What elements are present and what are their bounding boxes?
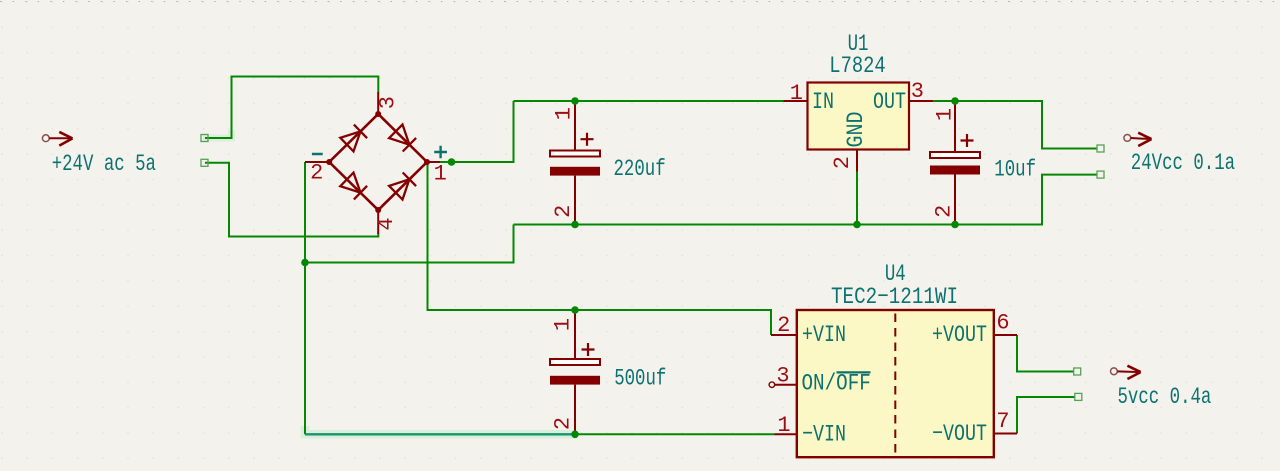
capacitor 10uf value label (994, 157, 1036, 183)
net label 5vcc 0.4a (1118, 385, 1212, 411)
U4 value label TEC2-1211WI (831, 285, 958, 311)
svg-text:4: 4 (374, 217, 399, 230)
bridge pin 3 stub (377, 92, 379, 114)
capacitor 10uf plus sign (961, 134, 974, 147)
svg-text:2: 2 (830, 156, 855, 169)
unconnected wire end square 24V out (1097, 145, 1104, 152)
svg-text:−VIN: −VIN (802, 422, 846, 449)
capacitor 500uf pin number 2 (551, 417, 576, 430)
capacitor 500uf leads (574, 310, 576, 434)
capacitor 10uf pin number 1 (933, 108, 958, 121)
wire AC top: input stub to bridge pin 3 (205, 77, 378, 139)
wire bridge plus down to U4 +VIN (428, 162, 772, 335)
capacitor 500uf bottom plate (550, 376, 600, 385)
capacitor 220uf bottom plate (550, 167, 600, 176)
capacitor 500uf value label (614, 366, 666, 392)
converter U4 body (797, 310, 994, 457)
U4 pin 2 +VIN stub (771, 334, 797, 336)
svg-text:1: 1 (552, 107, 577, 120)
diode top-right (anode pin3 cathode pin1) (389, 125, 416, 152)
capacitor 220uf plus sign (581, 133, 594, 146)
U1 pin 3 OUT stub (909, 100, 933, 102)
U4 pin 3 ON/OFF stub with unconnected circle (769, 382, 797, 388)
svg-text:1: 1 (434, 161, 447, 186)
U4 pin number 1 (777, 413, 790, 438)
U4 pin number 3 (776, 364, 789, 389)
bridge pin number 4 (374, 217, 399, 230)
svg-text:3: 3 (375, 96, 400, 109)
diode bridge outline (329, 114, 427, 210)
svg-text:5vcc 0.4a: 5vcc 0.4a (1118, 385, 1212, 411)
wire U1 GND down to 0V rail (856, 172, 858, 225)
U4 reference label (885, 262, 906, 288)
svg-text:2: 2 (551, 417, 576, 430)
wire 0V rail (514, 175, 1098, 225)
selection highlight halo on AC input stub wire (203, 130, 232, 138)
bridge pin 2 stub (305, 161, 329, 163)
net label 24Vcc 0.1a (1131, 151, 1235, 177)
capacitor 10uf bottom plate (930, 166, 980, 175)
unconnected wire end square 5V out (1074, 368, 1081, 375)
U4 pin name +VOUT (932, 322, 987, 349)
wire bridge plus to top 24V rail (452, 101, 514, 162)
svg-text:500uf: 500uf (614, 366, 666, 392)
net port arrow 5vcc output (1111, 366, 1141, 379)
capacitor 500uf pin number 1 (551, 318, 576, 331)
bridge vertex node dots (326, 111, 430, 213)
wire from minus node to 0V rail (305, 225, 514, 263)
U4 pin number 2 (777, 313, 790, 338)
U4 pin 6 +VOUT stub (994, 334, 1017, 336)
svg-text:2: 2 (551, 205, 576, 218)
svg-text:IN: IN (812, 89, 834, 116)
capacitor 10uf pin number 2 (932, 205, 957, 218)
wire U1 OUT to 24V output stub (933, 101, 1097, 149)
capacitor 220uf value label (614, 157, 666, 183)
U1 pin name OUT (873, 89, 906, 116)
U4 pin number 6 (996, 311, 1009, 336)
svg-text:TEC2−1211WI: TEC2−1211WI (831, 285, 958, 311)
svg-text:L7824: L7824 (829, 53, 885, 80)
capacitor 220uf pin number 2 (551, 205, 576, 218)
svg-text:OUT: OUT (873, 89, 906, 116)
svg-text:−VOUT: −VOUT (932, 421, 987, 448)
unconnected wire end square 5V return (1075, 393, 1082, 400)
U1 pin number 1 (790, 81, 803, 106)
svg-text:+VOUT: +VOUT (932, 322, 987, 349)
capacitor 500uf plus sign (582, 343, 595, 356)
svg-text:10uf: 10uf (994, 157, 1036, 183)
U1 reference label (848, 32, 869, 58)
capacitor 220uf pin number 1 (552, 107, 577, 120)
net port arrow 24Vcc output (1124, 133, 1152, 146)
svg-text:220uf: 220uf (614, 157, 666, 183)
regulator U1 body (808, 83, 910, 150)
unconnected wire end square AC bottom (201, 159, 208, 166)
diode bottom-left (anode pin2 cathode pin4) (340, 173, 367, 200)
unconnected wire end square AC top (201, 135, 208, 142)
U1 pin 2 GND stub (856, 150, 858, 172)
diode top-left (anode pin2 cathode pin3) (340, 125, 367, 152)
wire U4 -VOUT to 5V return stub (1017, 397, 1075, 434)
wire selected highlighted segment minus rail to 500uf bottom (305, 433, 575, 435)
svg-text:ON/OFF: ON/OFF (802, 371, 871, 397)
capacitor 10uf top plate (930, 152, 980, 158)
U1 pin number 3 (911, 79, 924, 104)
U4 pin name +VIN (802, 322, 846, 349)
wire AC bottom: input stub to bridge pin 4 (205, 163, 378, 237)
svg-text:2: 2 (777, 313, 790, 338)
U4 pin name -VOUT (932, 421, 987, 448)
svg-text:6: 6 (996, 311, 1009, 336)
svg-text:24Vcc 0.1a: 24Vcc 0.1a (1131, 151, 1235, 177)
svg-text:1: 1 (933, 108, 958, 121)
svg-text:7: 7 (996, 409, 1009, 434)
U4 pin 7 -VOUT stub (994, 433, 1017, 435)
svg-text:1: 1 (777, 413, 790, 438)
bridge pin 1 stub (427, 161, 440, 163)
U4 pin name ON/OFF with overline (802, 371, 871, 397)
U1 pin name GND (843, 112, 870, 148)
capacitor 220uf leads (574, 101, 576, 225)
wire over bridge pin 1 (440, 161, 455, 163)
U4 pin name -VIN (802, 422, 846, 449)
net label +24V ac 5a (52, 152, 156, 178)
wire minus rail vertical from bridge pin 2 down (304, 162, 306, 434)
svg-text:3: 3 (911, 79, 924, 104)
selection highlight halo on minus rail wire (305, 426, 577, 434)
diode bottom-right (anode pin4 cathode pin1) (389, 173, 416, 200)
svg-text:1: 1 (790, 81, 803, 106)
bridge minus sign (312, 153, 323, 156)
bridge pin number 2 (310, 161, 323, 186)
svg-text:+VIN: +VIN (802, 322, 846, 349)
bridge plus sign (434, 146, 447, 158)
U1 pin name IN (812, 89, 834, 116)
svg-text:3: 3 (776, 364, 789, 389)
svg-text:1: 1 (551, 318, 576, 331)
bridge pin number 1 (434, 161, 447, 186)
capacitor 220uf top plate (550, 151, 600, 157)
capacitor 10uf leads (954, 101, 956, 225)
bridge pin number 3 (375, 96, 400, 109)
U1 value label L7824 (829, 53, 885, 80)
bridge pin 4 stub (377, 210, 379, 234)
svg-text:2: 2 (932, 205, 957, 218)
unconnected wire end square 24V return (1097, 171, 1104, 178)
svg-text:GND: GND (843, 112, 870, 148)
U1 pin number 2 (830, 156, 855, 169)
U4 pin 1 -VIN stub (775, 433, 797, 435)
net port arrow +24V input (42, 132, 72, 146)
capacitor 500uf top plate (550, 359, 600, 365)
wire U4 +VOUT to 5V output stub (1017, 335, 1074, 372)
wire 500uf bottom node to U4 -VIN (575, 433, 775, 435)
U4 pin number 7 (996, 409, 1009, 434)
U4 isolation dashed divider (894, 314, 896, 455)
svg-text:2: 2 (310, 161, 323, 186)
U1 pin 1 IN stub (784, 100, 808, 102)
wire top 24V rail to U1 IN (514, 100, 784, 102)
svg-text:+24V ac 5a: +24V ac 5a (52, 152, 156, 178)
